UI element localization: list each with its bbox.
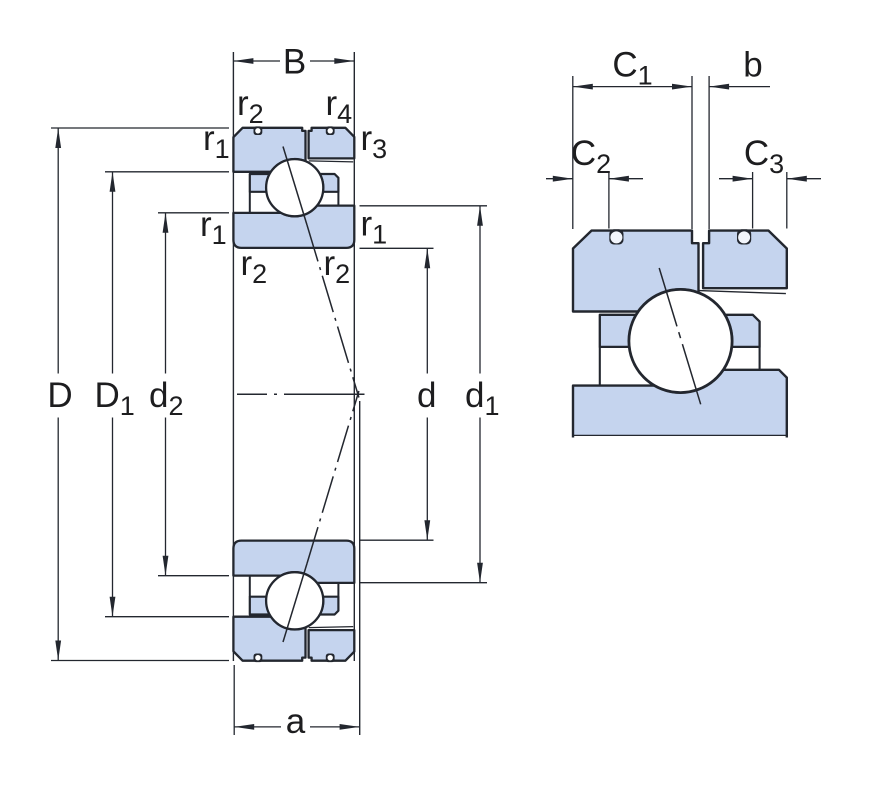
svg-text:r4: r4 bbox=[326, 84, 353, 129]
dimension d bbox=[426, 248, 428, 373]
svg-text:r1: r1 bbox=[200, 205, 227, 250]
svg-text:r3: r3 bbox=[361, 119, 388, 164]
cage, left block (top section) bbox=[250, 174, 270, 192]
detail: section cut bottom edge bbox=[572, 434, 788, 436]
axis centerline bbox=[237, 393, 365, 395]
svg-text:b: b bbox=[743, 45, 762, 84]
detail: outer ring left part bbox=[573, 231, 699, 312]
apex extension line (a) bbox=[359, 401, 361, 735]
ball (top section) bbox=[266, 159, 323, 216]
contact angle line (bottom, dash-dot to apex) bbox=[307, 391, 359, 564]
lubrication hole pocket bbox=[254, 126, 263, 135]
svg-text:r2: r2 bbox=[237, 84, 264, 129]
svg-text:a: a bbox=[286, 702, 306, 741]
svg-text:D1: D1 bbox=[95, 376, 135, 421]
detail: cage left block bbox=[600, 315, 637, 347]
dimension B bbox=[233, 60, 280, 62]
svg-text:r2: r2 bbox=[241, 244, 268, 289]
lubrication hole pocket bbox=[326, 126, 335, 135]
top bearing cross-section bbox=[233, 126, 354, 247]
svg-text:C1: C1 bbox=[612, 45, 652, 90]
dimension D bbox=[57, 128, 59, 374]
svg-text:r1: r1 bbox=[203, 119, 230, 164]
svg-text:C2: C2 bbox=[571, 134, 611, 179]
outer ring, left part (top section) bbox=[233, 128, 305, 172]
dimension a bbox=[234, 726, 281, 728]
detail: lubrication hole pocket bbox=[609, 229, 623, 244]
d2 extension lines bbox=[158, 212, 229, 214]
outer ring low-shoulder land line bbox=[309, 161, 353, 162]
dimension C3 bbox=[752, 172, 754, 229]
outer ring, right part (top section) bbox=[309, 128, 355, 159]
svg-text:r2: r2 bbox=[324, 244, 351, 289]
svg-text:r1: r1 bbox=[361, 205, 388, 250]
dimension b bbox=[709, 86, 770, 88]
dimension d2 bbox=[165, 213, 167, 374]
detail: ball bbox=[629, 289, 732, 392]
detail: lubrication hole pocket bbox=[737, 229, 751, 244]
detail: low-shoulder land line bbox=[699, 291, 786, 294]
svg-text:d1: d1 bbox=[465, 376, 500, 421]
bottom bearing cross-section (mirror) bbox=[233, 541, 354, 663]
D extension lines bbox=[51, 127, 229, 129]
detail: contact angle line bbox=[659, 268, 701, 404]
cage, right block (top section) bbox=[320, 174, 339, 192]
detail: inner ring bbox=[573, 370, 787, 436]
dimension d1 bbox=[479, 206, 481, 374]
right face line / B extension bbox=[353, 52, 355, 661]
svg-text:d2: d2 bbox=[149, 376, 184, 421]
detail: cage right block bbox=[725, 315, 760, 347]
left face line / B-a extension bbox=[232, 52, 234, 661]
contact angle line (top, dash-dot to apex) bbox=[307, 225, 359, 398]
svg-text:d: d bbox=[417, 376, 436, 415]
inner ring (top section) bbox=[233, 206, 354, 248]
svg-text:B: B bbox=[283, 43, 306, 82]
contact angle line (top, solid part) bbox=[283, 147, 307, 226]
svg-text:C3: C3 bbox=[744, 134, 784, 179]
D1 extension lines bbox=[105, 171, 229, 173]
detail: outer ring right part bbox=[703, 231, 787, 289]
dimension D1 bbox=[112, 172, 114, 374]
dimension C1 bbox=[572, 76, 574, 229]
dimension C2 bbox=[608, 172, 610, 229]
contact angle line (bottom, solid part) bbox=[283, 564, 307, 643]
svg-text:D: D bbox=[47, 376, 72, 415]
